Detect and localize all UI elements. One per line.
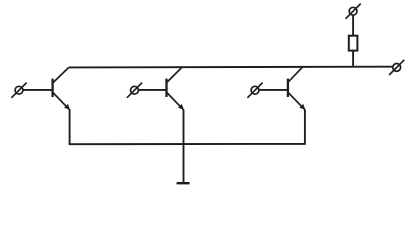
terminal B (input, middle) <box>127 83 142 98</box>
wire B to Q2 base <box>138 89 166 91</box>
terminal C (input, right) <box>247 83 262 98</box>
wire Q3 emitter down <box>304 110 306 144</box>
wire D to resistor <box>352 15 354 36</box>
wire C to Q3 base <box>259 89 288 91</box>
transistor Q3 <box>288 67 305 110</box>
terminal E (output, right) <box>389 60 404 75</box>
wire A to Q1 base <box>23 89 53 91</box>
transistor Q2 <box>167 68 184 110</box>
terminal A (input, left) <box>11 83 26 98</box>
terminal D (supply, top) <box>346 4 361 19</box>
wire bottom rail (emitters) <box>69 143 306 145</box>
wire Q2 emitter to ground <box>183 110 185 184</box>
transistor Q1 <box>53 67 70 109</box>
wire top rail (collectors to output) <box>69 66 393 69</box>
wire resistor to top rail <box>352 51 354 67</box>
wire Q1 emitter down <box>69 110 71 145</box>
ground <box>177 182 190 184</box>
resistor R1 <box>349 36 358 51</box>
